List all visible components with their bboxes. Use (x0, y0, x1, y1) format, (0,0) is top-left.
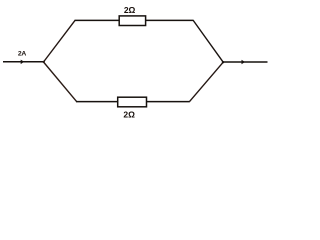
wire: bottom branch right horizontal (147, 101, 190, 103)
wire: diagonal up to top branch (44, 20, 76, 62)
svg-text:2Ω: 2Ω (124, 5, 136, 15)
svg-text:2A: 2A (18, 51, 26, 58)
current arrow on output wire (242, 60, 246, 64)
wire: right output horizontal (223, 61, 268, 63)
wire: top branch left horizontal (75, 19, 120, 21)
wire: bottom branch left horizontal (76, 101, 118, 103)
wire: diagonal up from bottom branch to right junction (190, 62, 224, 101)
resistor R1 (top, 2Ω) (119, 16, 145, 26)
svg-text:2Ω: 2Ω (123, 109, 135, 119)
wire: diagonal down from top branch to right junction (193, 20, 223, 62)
current arrow on input wire (21, 60, 25, 65)
wire: diagonal down to bottom branch (44, 62, 77, 101)
wire: left input horizontal (3, 61, 44, 63)
wire: top branch right horizontal (146, 19, 194, 21)
node B: right junction (222, 61, 224, 63)
node A: left junction (43, 61, 45, 63)
resistor R2 (bottom, 2Ω) (118, 97, 147, 107)
